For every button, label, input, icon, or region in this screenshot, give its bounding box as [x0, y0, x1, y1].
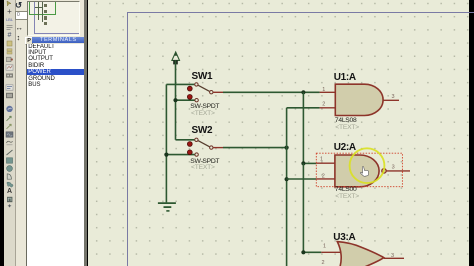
preview window: [27, 1, 80, 36]
junction net B lower: [285, 177, 289, 181]
wire SW2 pole horizontal: [223, 147, 287, 149]
switch SW2: [187, 138, 223, 156]
P button: [25, 37, 33, 46]
svg-text:1: 1: [322, 87, 325, 93]
wire net A to U3 pin1: [303, 251, 321, 253]
angle edit box: [15, 11, 28, 20]
wire power branch to SW1 throw2: [176, 99, 195, 101]
wire net B riser up: [286, 108, 288, 148]
wire ground drop: [165, 84, 167, 202]
component labels (HTML text): [192, 71, 213, 82]
mirror vertical: [17, 34, 27, 42]
junction on power wire at SW1 throw2: [173, 98, 177, 102]
svg-text:2: 2: [322, 102, 325, 108]
wire net A riser upper: [302, 92, 304, 163]
mirror horizontal: [16, 24, 26, 32]
switch SW1: [187, 83, 223, 102]
svg-text:3: 3: [392, 164, 395, 170]
highlight circle cursor: [350, 148, 385, 183]
svg-text:1: 1: [320, 157, 323, 163]
svg-text:3: 3: [392, 94, 395, 100]
junction net A bottom: [301, 250, 305, 254]
object selector list: [26, 44, 85, 266]
svg-text:3: 3: [391, 253, 394, 259]
or-gate U3: [321, 242, 404, 266]
wire net B to U1 pin2: [287, 107, 320, 109]
sheet border: [127, 12, 474, 266]
left toolbar strip: [4, 0, 16, 266]
ground: [158, 203, 176, 211]
nand-gate U2 (selected): [316, 153, 410, 187]
power terminal: [172, 52, 180, 64]
wire power drop: [175, 60, 177, 139]
TERMINALS header: [32, 37, 85, 44]
junction net A top: [301, 90, 305, 94]
wire net B to U2 pin2: [287, 178, 317, 180]
rotate control: [15, 1, 25, 10]
side panel background: [16, 0, 86, 266]
wire power to SW2 throw1: [176, 139, 195, 141]
wire net B riser down: [286, 148, 288, 266]
wire net A riser lower: [302, 163, 304, 252]
and-gate U1: [320, 84, 399, 115]
wire to SW2 throw2: [166, 154, 194, 156]
junction ground wire SW2 throw2: [164, 153, 168, 157]
wire net A to U2 pin1: [303, 162, 316, 164]
junction net A mid: [301, 161, 305, 165]
svg-text:2: 2: [322, 260, 325, 266]
svg-text:2: 2: [322, 173, 325, 179]
junction net B: [285, 146, 289, 150]
wire SW1 pole to U1 pin1: [223, 91, 320, 93]
svg-text:1: 1: [323, 244, 326, 250]
wire SW1 throw1 horizontal: [166, 83, 194, 85]
editor window sunken edge: [84, 0, 87, 266]
